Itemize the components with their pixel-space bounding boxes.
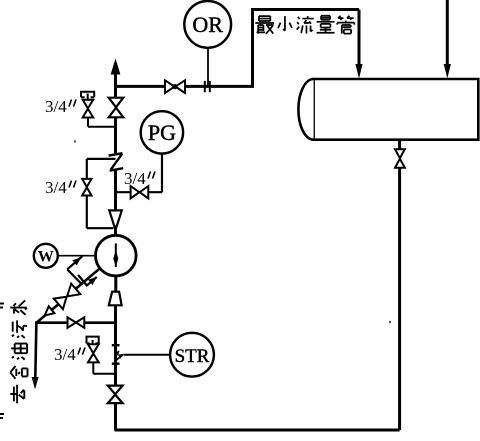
svg-text:3/4: 3/4 xyxy=(124,169,146,188)
svg-text:PG: PG xyxy=(148,120,176,145)
svg-text:W: W xyxy=(38,249,54,266)
svg-text:3/4: 3/4 xyxy=(54,345,76,364)
svg-text:STR: STR xyxy=(175,346,210,367)
svg-text:3/4: 3/4 xyxy=(45,97,67,116)
svg-text:3/4: 3/4 xyxy=(45,178,67,197)
svg-text:OR: OR xyxy=(192,12,223,37)
